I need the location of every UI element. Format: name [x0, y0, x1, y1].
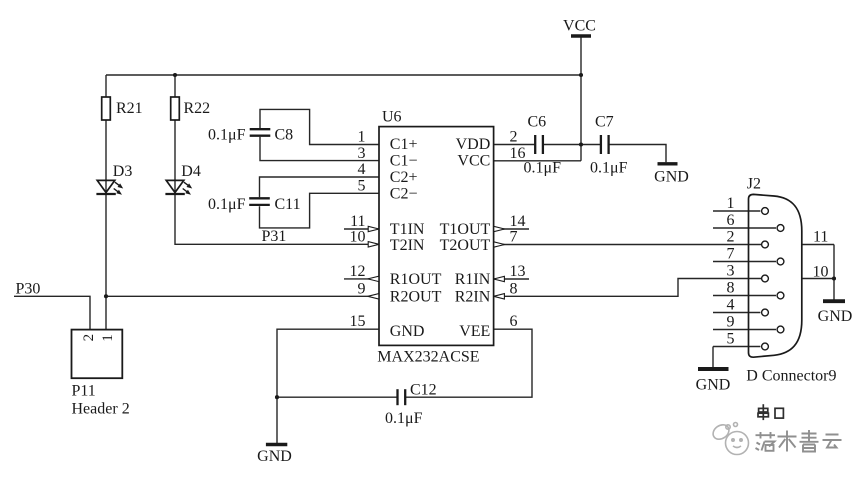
- svg-text:0.1μF: 0.1μF: [524, 160, 562, 177]
- svg-text:GND: GND: [654, 169, 689, 186]
- svg-text:C11: C11: [275, 196, 301, 213]
- svg-text:C1−: C1−: [390, 153, 418, 170]
- svg-text:7: 7: [727, 246, 735, 263]
- svg-text:8: 8: [510, 280, 518, 297]
- svg-text:P30: P30: [16, 280, 41, 297]
- svg-text:VCC: VCC: [563, 18, 596, 35]
- svg-text:4: 4: [358, 161, 366, 178]
- svg-text:R1IN: R1IN: [455, 271, 491, 288]
- svg-text:2: 2: [81, 334, 97, 342]
- svg-text:6: 6: [510, 313, 518, 330]
- svg-text:T2IN: T2IN: [390, 237, 425, 254]
- svg-text:7: 7: [510, 229, 518, 246]
- svg-text:GND: GND: [696, 377, 731, 394]
- svg-text:0.1μF: 0.1μF: [208, 196, 246, 213]
- svg-text:1: 1: [727, 195, 735, 212]
- svg-text:2: 2: [727, 229, 735, 246]
- svg-text:VEE: VEE: [459, 323, 490, 340]
- svg-text:0.1μF: 0.1μF: [208, 127, 246, 144]
- svg-text:1: 1: [358, 129, 366, 146]
- svg-text:D4: D4: [181, 163, 201, 180]
- svg-text:C12: C12: [410, 382, 437, 399]
- svg-text:R22: R22: [184, 100, 211, 117]
- svg-text:R2IN: R2IN: [455, 289, 491, 306]
- svg-text:U6: U6: [382, 108, 402, 125]
- svg-text:13: 13: [510, 263, 526, 280]
- svg-text:C7: C7: [595, 113, 614, 130]
- svg-text:3: 3: [727, 263, 735, 280]
- svg-text:C8: C8: [275, 127, 294, 144]
- svg-text:6: 6: [727, 212, 735, 229]
- svg-text:T1IN: T1IN: [390, 221, 425, 238]
- svg-text:Header 2: Header 2: [72, 401, 130, 418]
- svg-text:P11: P11: [72, 382, 96, 399]
- svg-text:8: 8: [727, 280, 735, 297]
- svg-text:9: 9: [727, 314, 735, 331]
- svg-text:J2: J2: [747, 175, 761, 192]
- svg-text:2: 2: [510, 129, 518, 146]
- svg-text:T2OUT: T2OUT: [440, 237, 491, 254]
- svg-text:GND: GND: [818, 308, 853, 325]
- svg-text:D Connector9: D Connector9: [746, 368, 836, 385]
- svg-text:P31: P31: [262, 228, 287, 245]
- svg-text:5: 5: [358, 177, 366, 194]
- svg-text:1: 1: [100, 334, 116, 342]
- svg-text:C2+: C2+: [390, 169, 418, 186]
- svg-text:VDD: VDD: [456, 136, 491, 153]
- svg-text:R1OUT: R1OUT: [390, 271, 442, 288]
- svg-text:C2−: C2−: [390, 185, 418, 202]
- svg-text:C6: C6: [528, 113, 547, 130]
- svg-text:C1+: C1+: [390, 136, 418, 153]
- svg-text:GND: GND: [390, 323, 425, 340]
- svg-text:12: 12: [350, 263, 366, 280]
- svg-text:R2OUT: R2OUT: [390, 289, 442, 306]
- svg-text:15: 15: [350, 313, 366, 330]
- svg-text:9: 9: [358, 280, 366, 297]
- svg-text:14: 14: [510, 213, 526, 230]
- svg-text:0.1μF: 0.1μF: [385, 410, 423, 427]
- svg-text:4: 4: [727, 297, 735, 314]
- svg-text:11: 11: [813, 229, 828, 246]
- svg-text:16: 16: [510, 145, 526, 162]
- svg-text:T1OUT: T1OUT: [440, 221, 491, 238]
- svg-text:5: 5: [727, 331, 735, 348]
- svg-text:GND: GND: [257, 448, 292, 465]
- svg-text:D3: D3: [113, 163, 133, 180]
- svg-text:3: 3: [358, 145, 366, 162]
- svg-text:10: 10: [813, 264, 829, 281]
- svg-text:10: 10: [350, 228, 366, 245]
- svg-text:MAX232ACSE: MAX232ACSE: [377, 349, 479, 366]
- svg-text:VCC: VCC: [457, 153, 490, 170]
- svg-text:R21: R21: [116, 100, 143, 117]
- svg-text:0.1μF: 0.1μF: [590, 160, 628, 177]
